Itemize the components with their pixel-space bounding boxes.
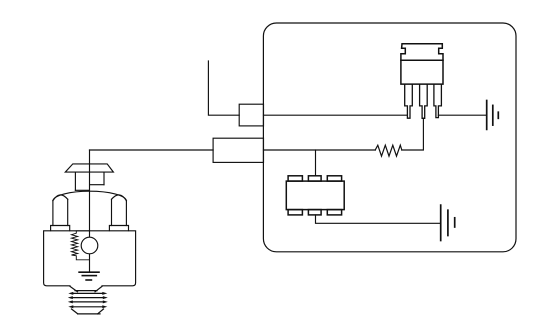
piezo element xyxy=(81,237,98,254)
wire stub to upper connector xyxy=(208,61,239,115)
U2 pin tab top-2 xyxy=(308,176,321,181)
resistor R1 xyxy=(375,145,402,156)
ground (bottom right) xyxy=(441,205,455,240)
U2 pin tab bottom-1 xyxy=(288,210,302,215)
U2 pin tab top-1 xyxy=(288,176,302,181)
sensor terminal wire xyxy=(89,150,91,272)
lug flange right xyxy=(109,226,128,231)
U2 pin tab top-3 xyxy=(327,176,341,181)
U2 pin tab bottom-2 xyxy=(308,210,321,215)
wire C2 to knock sensor xyxy=(90,149,214,151)
sensor neck xyxy=(74,172,76,190)
wire C1 to Q1 pin 1 xyxy=(264,114,408,116)
thread crest arrows xyxy=(68,292,108,308)
Q1 pin 3 xyxy=(434,84,442,118)
sensor lug left xyxy=(52,201,54,226)
sensor thread stub xyxy=(68,286,108,314)
internal resistor R2 xyxy=(72,231,90,260)
wire junction down to IC U2 xyxy=(315,150,317,176)
lug flange left xyxy=(51,226,70,231)
sensor body xyxy=(44,231,136,286)
ECU module outline xyxy=(263,23,516,252)
wire R1 to connector C2 xyxy=(264,149,376,151)
knock sensor B1 xyxy=(44,150,136,314)
U2 pin tab bottom-3 xyxy=(327,210,341,215)
sensor internal ground xyxy=(79,272,99,280)
connector C2 (lower) xyxy=(213,138,263,162)
Q1 pin 1 xyxy=(405,84,413,118)
connector C1 (upper) xyxy=(239,104,263,126)
ground (right of Q1) xyxy=(487,101,499,130)
wire Q1 pin 2 down to resistor R1 xyxy=(402,118,424,150)
sensor lug right xyxy=(125,201,127,226)
sensor cap xyxy=(65,164,113,172)
transistor Q1 (TO-220 package outline) xyxy=(401,44,443,84)
wire Q1 pin 3 to ground xyxy=(438,114,486,116)
wire U2 to bottom ground xyxy=(316,215,441,223)
IC U2 body xyxy=(286,176,344,215)
Q1 pin 2 xyxy=(420,84,428,118)
sensor dome shoulder xyxy=(53,191,127,200)
